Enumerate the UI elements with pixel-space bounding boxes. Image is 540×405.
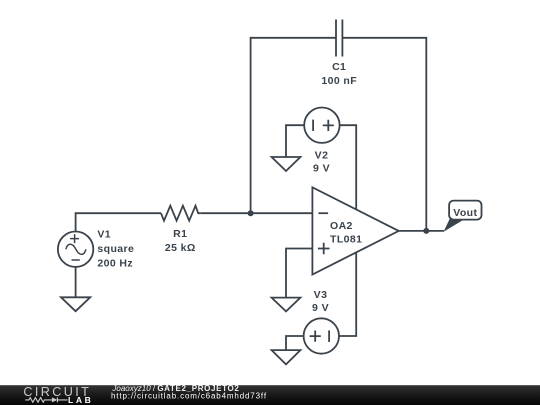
ground under V1 (61, 297, 90, 311)
svg-text:V3: V3 (314, 289, 328, 301)
wire op-amp output (399, 230, 444, 232)
node junction at R1 / feedback (248, 210, 254, 216)
svg-text:Vout: Vout (453, 207, 477, 219)
op-amp plus symbol (318, 243, 330, 255)
voltage source V1 (58, 232, 93, 267)
wire V2 right to op-amp V+ pin (340, 125, 357, 209)
op-amp OA2 triangle (312, 187, 398, 274)
ground under V3 (272, 350, 301, 364)
wire V3 left to ground (286, 336, 304, 350)
wire op-amp plus input to ground (286, 249, 312, 298)
V2 minus bar (312, 120, 314, 131)
svg-text:R1: R1 (173, 228, 187, 240)
CircuitLab logo diode symbol (52, 397, 58, 402)
V3 minus bar (328, 330, 330, 342)
svg-text:V1: V1 (97, 228, 111, 240)
wire feedback left vertical and top to C1 (251, 38, 336, 213)
wire V1 top to R1 (76, 213, 161, 231)
wire C1 right to output node (342, 38, 426, 231)
wire R1 to op-amp inverting input (201, 212, 313, 214)
ground at op-amp plus input (272, 298, 301, 312)
capacitor C1 (336, 20, 342, 57)
resistor R1 (161, 206, 201, 221)
svg-text:square: square (97, 243, 134, 255)
CircuitLab logo wire squiggle (25, 398, 52, 403)
Vout flag tail (444, 219, 464, 232)
svg-text:http://circuitlab.com/c6ab4mhd: http://circuitlab.com/c6ab4mhdd73ff (111, 392, 267, 401)
svg-text:C1: C1 (332, 61, 346, 73)
svg-text:TL081: TL081 (330, 234, 362, 246)
V1 plus sign (70, 234, 79, 243)
voltage source V2 (304, 108, 339, 143)
Vout flag box (449, 201, 481, 220)
svg-text:200 Hz: 200 Hz (97, 257, 133, 269)
svg-text:9 V: 9 V (312, 302, 329, 314)
svg-text:LAB: LAB (68, 395, 93, 405)
V3 plus sign (310, 331, 321, 342)
svg-text:25 kΩ: 25 kΩ (165, 242, 196, 254)
svg-text:100 nF: 100 nF (321, 75, 357, 87)
wire V2 left to ground (286, 125, 304, 157)
V1 minus sign (72, 259, 80, 261)
svg-text:OA2: OA2 (330, 220, 353, 232)
op-amp minus symbol (318, 212, 328, 214)
V2 plus sign (323, 120, 334, 131)
V1 sine wave (66, 244, 86, 254)
wire V1 bottom to ground (75, 267, 77, 297)
ground under V2 (272, 157, 301, 171)
voltage source V3 (304, 318, 339, 353)
wire V3 right to op-amp V- pin (339, 253, 356, 336)
svg-text:9 V: 9 V (313, 163, 330, 175)
footer bar (0, 385, 540, 405)
svg-text:V2: V2 (315, 150, 329, 162)
node junction at output (423, 228, 429, 234)
